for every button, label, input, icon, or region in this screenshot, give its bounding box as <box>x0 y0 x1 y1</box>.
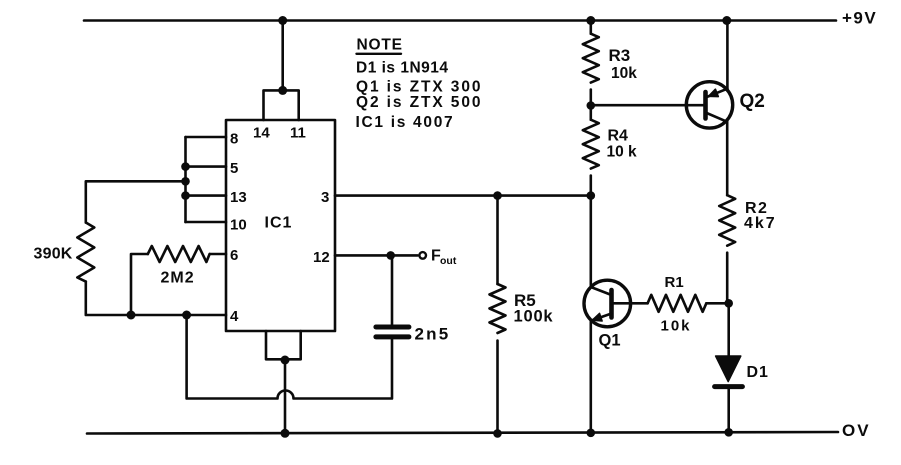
svg-text:10k: 10k <box>611 65 637 82</box>
svg-text:Q2 is ZTX 500: Q2 is ZTX 500 <box>356 94 482 111</box>
transistor Q1 emitter line with NPN arrow <box>592 314 612 321</box>
svg-text:OV: OV <box>842 421 871 440</box>
wire: 390K top lead to left bus <box>86 181 186 222</box>
svg-text:+9V: +9V <box>842 9 877 28</box>
svg-text:4k7: 4k7 <box>744 215 777 232</box>
wire: R5 top lead <box>496 196 499 284</box>
transistor Q1 body circle <box>584 280 631 327</box>
svg-text:out: out <box>440 255 457 267</box>
node: junction dot cap tap on pin12 net <box>386 251 395 260</box>
resistor 2M2 <box>148 246 210 262</box>
transistor Q1 collector line inside <box>591 287 612 295</box>
svg-text:D1 is 1N914: D1 is 1N914 <box>356 60 449 77</box>
svg-text:13: 13 <box>230 189 247 206</box>
node: junction dot R5 at 0V rail <box>493 429 502 438</box>
resistor R4 <box>583 120 599 169</box>
wire: 390K bottom lead to pin4 net <box>86 282 131 315</box>
transistor Q2 emitter line (to +9V) with PNP arrow <box>706 89 728 98</box>
node: junction dot 390K tap <box>181 177 190 186</box>
svg-text:100k: 100k <box>514 307 554 325</box>
node: junction dot on 0V rail at riser <box>281 429 290 438</box>
node: junction dot on bottom bar <box>281 356 290 365</box>
wire: Q1 emitter to 0V rail <box>589 322 592 433</box>
node: junction dot R3 at +9V rail <box>586 16 595 25</box>
svg-text:10k: 10k <box>661 317 692 334</box>
resistor 390K <box>77 223 94 282</box>
terminal: Fout open circle <box>419 252 426 259</box>
wire: riser from bottom bar to 0V rail <box>284 359 287 433</box>
wire: R3 bottom lead to divider node <box>589 90 592 106</box>
wire: R2 bottom lead to R1/D1 node <box>726 253 729 304</box>
svg-text:IC1 is 4007: IC1 is 4007 <box>356 114 455 131</box>
node: junction dot R1/R2/D1 <box>724 299 733 308</box>
wire: R3 top lead from +9V <box>589 21 592 34</box>
wire: 0V bottom rail <box>87 432 838 434</box>
wire: pin14/pin11 supply stubs to top bar <box>264 90 299 120</box>
svg-text:Q1 is ZTX 300: Q1 is ZTX 300 <box>356 79 482 96</box>
wire: riser from top bar to +9V rail <box>281 21 284 91</box>
node: junction dot Q2 emitter at +9V rail <box>722 16 731 25</box>
wire: pin 3 net horizontal <box>335 194 591 197</box>
wire: 2M2 right lead to pin 6 <box>210 253 226 256</box>
wire: pin 10 stub <box>186 221 227 224</box>
diode D1 triangle <box>716 356 741 382</box>
svg-text:4: 4 <box>230 308 239 325</box>
wire: 2M2 left lead down to pin4 net <box>131 254 148 315</box>
svg-text:IC1: IC1 <box>265 215 293 232</box>
wire: D1 cathode to 0V rail <box>727 387 730 433</box>
node: junction dot R4 bottom / Q1 collector <box>587 191 596 200</box>
svg-text:Q2: Q2 <box>740 91 765 112</box>
wire: R5 bottom lead to 0V <box>496 341 499 434</box>
wire: Q2 collector down to R2 <box>726 122 729 195</box>
svg-text:5: 5 <box>230 160 238 177</box>
wire: R1 right lead to D1 node <box>706 302 728 305</box>
node: junction dot divider R3/R4/Q2 base <box>587 101 596 110</box>
wire: feedback run down, right with hop over ground riser, up to capacitor <box>187 315 392 399</box>
svg-text:2n5: 2n5 <box>415 325 451 344</box>
svg-text:10 k: 10 k <box>607 144 638 161</box>
svg-text:3: 3 <box>321 189 329 206</box>
wire: Q1 base lead to R1 <box>612 302 648 305</box>
wire: R4 bottom lead to pin3 net <box>589 176 592 196</box>
transistor Q2 collector line (to R2) <box>706 113 728 122</box>
wire: Q2 base run from divider <box>591 104 706 107</box>
wire: pin 5 stub <box>186 165 227 168</box>
svg-text:12: 12 <box>313 249 330 266</box>
wire: pin7 ground stubs to bottom bar <box>266 331 301 359</box>
op-amp U1: IC1 body rectangle <box>226 120 335 331</box>
transistor Q2 body circle <box>686 82 732 128</box>
resistor R2 <box>719 195 735 245</box>
svg-text:R1: R1 <box>665 274 684 291</box>
resistor R1 <box>648 295 707 312</box>
node: junction dot R5 top <box>493 191 502 200</box>
wire: +9V top rail <box>84 19 836 22</box>
node: junction dot 2M2/390K tap <box>127 311 136 320</box>
transistor Q1 base bar <box>609 290 614 318</box>
svg-text:6: 6 <box>230 247 238 264</box>
resistor R5 <box>490 284 506 333</box>
node: junction dot D1 at 0V rail <box>724 428 733 437</box>
svg-text:2M2: 2M2 <box>161 270 195 287</box>
svg-text:Q1: Q1 <box>599 332 621 350</box>
wire: left bus joining pins 8,5,13,10 <box>184 137 187 222</box>
svg-text:390K: 390K <box>34 246 73 263</box>
node: junction dot Q1 emitter at 0V rail <box>587 429 596 438</box>
wire: R4 top lead <box>589 106 592 120</box>
node: junction dot pin13 <box>181 191 190 200</box>
wire: Q2 emitter to +9V rail <box>726 21 729 89</box>
transistor Q2 base bar <box>703 92 708 119</box>
wire: D1 anode lead <box>727 303 730 356</box>
diode D1 cathode bar <box>715 384 743 389</box>
svg-text:8: 8 <box>230 131 238 148</box>
node: junction dot top rail at riser <box>278 16 287 25</box>
svg-text:R4: R4 <box>608 127 629 144</box>
wire: capacitor top lead to pin12 net <box>391 255 394 324</box>
node: junction dot pin5 <box>181 162 190 171</box>
svg-text:NOTE: NOTE <box>357 37 403 54</box>
wire: pin 12 output run <box>335 254 418 257</box>
wire: pin 4 net horizontal <box>131 314 226 317</box>
svg-text:R3: R3 <box>609 46 631 65</box>
svg-text:10: 10 <box>230 217 247 234</box>
wire: pin 13 stub <box>186 194 227 197</box>
wire: Q1 collector riser from pin3 net <box>589 196 592 287</box>
node: junction dot on top bar <box>278 86 287 95</box>
capacitor C 2n5 plates <box>376 325 409 330</box>
svg-text:D1: D1 <box>747 364 769 381</box>
wire: pin 8 stub <box>186 136 227 139</box>
svg-text:11: 11 <box>290 125 306 142</box>
node: junction dot feedback riser tap <box>182 311 191 320</box>
resistor R3 <box>583 34 599 83</box>
svg-text:14: 14 <box>253 125 270 142</box>
